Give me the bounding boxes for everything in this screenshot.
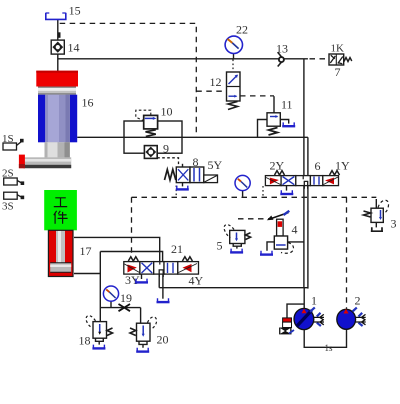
svg-text:13: 13 xyxy=(276,42,288,56)
pump 1 xyxy=(294,307,324,329)
relief valve 20 xyxy=(130,317,157,341)
wire: gauge 22 stem xyxy=(233,53,235,59)
svg-text:21: 21 xyxy=(171,242,183,256)
tank of valve 20 xyxy=(136,348,149,352)
wire: pump 2 label stub xyxy=(346,308,348,311)
tank of valve 21 left xyxy=(135,279,148,283)
accumulator cylinder 16 xyxy=(19,71,78,169)
gauge at control rail xyxy=(235,175,250,190)
pilot dashed: element 5 to element 4 xyxy=(238,218,271,220)
svg-text:1K: 1K xyxy=(331,43,345,55)
pilot dashed: to valve 12 left port xyxy=(196,90,226,92)
directional valve 6 xyxy=(265,171,339,189)
relief valve 11 xyxy=(267,113,280,135)
tank of valve 18 xyxy=(92,345,105,349)
wire: element 11 right line to tank xyxy=(280,120,288,124)
tank of valve 4 xyxy=(260,251,273,255)
pilot dashed: rail down to valve 21 pilot xyxy=(131,197,133,256)
wire: drop to valve 20 xyxy=(140,308,142,324)
wire: cylinder 17 top port to valve 21 port A xyxy=(74,237,160,261)
relief valve 3 xyxy=(364,200,389,231)
pilot dashed: control oil rail xyxy=(132,196,377,198)
pilot dashed: main line to valve 1K7 xyxy=(310,58,329,60)
wire: gauge 19 stem xyxy=(110,301,112,307)
svg-text:22: 22 xyxy=(236,23,248,37)
pilot valve 10 xyxy=(136,110,158,136)
wire: vertical from breather 15 through valve 14 to cylinder 16 top xyxy=(57,20,59,71)
svg-text:4Y: 4Y xyxy=(189,274,204,288)
svg-text:6: 6 xyxy=(315,159,321,173)
wire: cylinder 16 outlet to block and valve 6 line xyxy=(77,136,308,138)
wire: element 5 legs to tank xyxy=(233,244,241,249)
pilot dashed: breather line to vertical drain rail xyxy=(60,23,197,136)
tank of valve 11 xyxy=(282,122,295,126)
pilot dashed: check 9 to valve 8 xyxy=(157,158,178,166)
svg-text:7: 7 xyxy=(335,65,341,79)
svg-text:3S: 3S xyxy=(2,201,14,213)
throttle valve 19 xyxy=(119,304,131,311)
wire: element 3 bottom stem xyxy=(375,222,377,227)
wire: valve 18 legs to tank xyxy=(96,338,104,344)
svg-text:4: 4 xyxy=(292,223,298,237)
wire: valve 21 P port down xyxy=(158,274,160,288)
svg-text:3: 3 xyxy=(391,217,397,231)
wire: pump 1 pilot loop xyxy=(287,304,304,318)
gauge near throttle 19 xyxy=(103,286,118,301)
wire: lower manifold horizontal valve21 P to pump line xyxy=(159,287,308,289)
wire: cylinder 17 bottom port to left vertical xyxy=(74,273,100,275)
wire: element 3 top stem xyxy=(375,199,377,208)
wire: element 11 left line xyxy=(258,120,268,138)
wire: valve 21 T1 port down to tank xyxy=(141,274,143,279)
svg-text:2S: 2S xyxy=(2,168,14,180)
wire: left vertical to throttle junction and valve 18 xyxy=(99,252,101,322)
directional valve 21 xyxy=(124,257,199,277)
wire: element 4 outlet to main vertical xyxy=(288,241,304,243)
wire: main pressure line from 14 junction to right xyxy=(58,58,308,60)
check valve 14 xyxy=(51,40,64,54)
gauge 22 xyxy=(225,36,242,53)
reducing valve 18 xyxy=(86,316,112,339)
tank of valve 6 xyxy=(280,190,293,194)
wire: valve 21 port B line to left vertical xyxy=(100,252,162,262)
svg-text:2Y: 2Y xyxy=(270,159,285,173)
pilot dashed: valve 12 right to valve 11 xyxy=(240,95,274,97)
pilot tap mark above valve 14 xyxy=(58,32,60,38)
wire: vertical A main line down to valve 6 xyxy=(303,59,305,176)
svg-text:1S: 1S xyxy=(2,133,14,145)
svg-text:12: 12 xyxy=(210,75,222,89)
svg-text:5Y: 5Y xyxy=(208,158,223,172)
wire: valve 6 bottom to pump 1 (right line) xyxy=(307,186,309,289)
pilot dotted: valve 12 stem xyxy=(232,60,234,73)
breather 15 xyxy=(45,13,67,20)
wire: valve 21 T2 port down to tank xyxy=(162,274,164,299)
sequence valve 12 xyxy=(227,72,241,110)
svg-text:20: 20 xyxy=(157,333,169,347)
cylinder 17 xyxy=(48,230,73,276)
svg-text:1Y: 1Y xyxy=(335,159,350,173)
wire: valve 8 top stub xyxy=(182,164,184,167)
wire: valve 20 legs to tank xyxy=(139,341,147,348)
svg-text:15: 15 xyxy=(69,4,81,18)
tank of valve 8 xyxy=(176,186,189,190)
wire: throttle 19 horizontal line xyxy=(100,307,140,309)
svg-text:9: 9 xyxy=(163,142,169,156)
solenoid valve 8 with 5Y xyxy=(165,167,218,183)
svg-text:3Y: 3Y xyxy=(125,273,140,287)
tank of valve 21 center xyxy=(157,298,170,302)
pilot dotted: valve 8 drain to rail xyxy=(175,186,177,198)
sensor 3S xyxy=(4,192,25,199)
workpiece block xyxy=(44,190,77,230)
tank of valve 5 xyxy=(230,249,243,253)
wire: valve 6 tank port stub xyxy=(286,186,288,191)
wire: element 11 stem from pilot xyxy=(273,96,275,113)
wire: valve 6 bottom to lower manifold (left line) xyxy=(303,186,305,288)
svg-text:14: 14 xyxy=(68,41,80,55)
svg-text:1s: 1s xyxy=(325,343,334,353)
svg-text:2: 2 xyxy=(355,294,361,308)
svg-text:10: 10 xyxy=(161,105,173,119)
block rectangle for valves 9 and 10 xyxy=(124,121,182,153)
sensor 2S xyxy=(4,178,25,185)
wire: vertical B block line down to valve 6 xyxy=(307,137,309,175)
pilot valve 5 xyxy=(224,225,250,244)
svg-text:8: 8 xyxy=(193,155,199,169)
wire: pump 1 top stub xyxy=(303,288,305,310)
pilot dotted: valve 6 left drain xyxy=(262,186,264,197)
svg-text:17: 17 xyxy=(80,244,92,258)
solenoid valve 1K 7 xyxy=(329,54,352,65)
svg-text:11: 11 xyxy=(281,98,293,112)
svg-text:1: 1 xyxy=(311,294,317,308)
wire: valve 8 bottom to tank xyxy=(182,183,184,187)
proportional relief valve 4 xyxy=(267,211,294,253)
check valve 9 xyxy=(144,146,157,159)
wire: element 4 left drain to tank xyxy=(267,242,274,251)
svg-text:5: 5 xyxy=(217,239,223,253)
wire: pump suction manifold xyxy=(304,330,346,348)
wire: 5Y gauge stem xyxy=(242,191,244,197)
svg-text:18: 18 xyxy=(79,334,91,348)
check valve 13 xyxy=(278,52,284,66)
pump 2 xyxy=(337,308,366,330)
pilot dashed: rail down to pump 2 xyxy=(346,197,348,308)
pump 1 control: servo block xyxy=(279,318,294,335)
sensor 1S xyxy=(3,139,24,150)
svg-text:16: 16 xyxy=(82,96,94,110)
svg-text:19: 19 xyxy=(120,291,132,305)
